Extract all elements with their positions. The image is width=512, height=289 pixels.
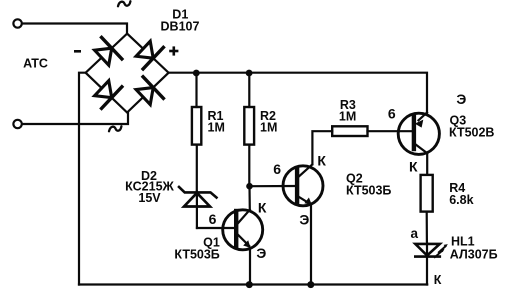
- svg-text:КТ502В: КТ502В: [449, 126, 494, 140]
- svg-text:АЛ307Б: АЛ307Б: [450, 248, 498, 262]
- svg-text:ATC: ATC: [23, 57, 48, 71]
- svg-text:1M: 1M: [208, 120, 225, 134]
- svg-text:6.8k: 6.8k: [449, 193, 473, 207]
- svg-text:К: К: [317, 153, 326, 169]
- svg-text:1M: 1M: [260, 120, 277, 134]
- svg-text:6: 6: [388, 106, 396, 122]
- svg-text:HL1: HL1: [451, 235, 475, 249]
- svg-text:a: a: [410, 226, 418, 241]
- svg-text:К: К: [258, 200, 267, 216]
- svg-text:КТ503Б: КТ503Б: [346, 183, 391, 197]
- svg-text:6: 6: [209, 211, 217, 227]
- svg-text:6: 6: [273, 161, 281, 177]
- svg-text:15V: 15V: [138, 191, 161, 205]
- svg-text:Э: Э: [299, 212, 309, 228]
- svg-text:Э: Э: [456, 91, 466, 107]
- svg-text:DB107: DB107: [161, 20, 200, 34]
- svg-text:К: К: [434, 273, 442, 287]
- svg-text:К: К: [409, 158, 418, 174]
- svg-text:Э: Э: [256, 245, 266, 261]
- svg-text:1M: 1M: [339, 109, 356, 123]
- svg-text:КТ503Б: КТ503Б: [174, 248, 219, 262]
